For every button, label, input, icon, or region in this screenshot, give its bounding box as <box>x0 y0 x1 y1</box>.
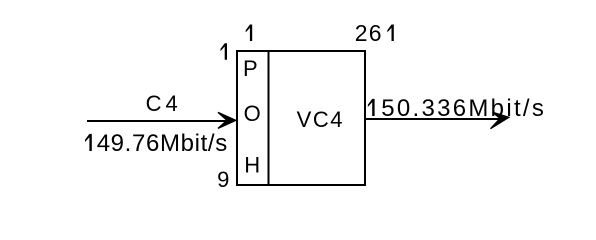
box VC4 container outline <box>237 51 365 185</box>
label column number 1 (above POH column) <box>246 25 252 41</box>
svg-text:49.76Mbit/s: 49.76Mbit/s <box>97 130 228 157</box>
svg-text:26: 26 <box>355 20 383 46</box>
svg-text:VC4: VC4 <box>297 107 344 132</box>
svg-text:H: H <box>244 152 260 177</box>
input arrowhead <box>218 112 236 128</box>
POH column divider line <box>268 50 270 186</box>
svg-text:O: O <box>244 101 261 126</box>
label 149.76Mbit/s (below input arrow) <box>85 134 92 151</box>
output arrowhead <box>491 112 509 129</box>
digit 1 of 261 <box>387 25 393 41</box>
label 150.336Mbit/s (above output arrow) <box>368 99 375 116</box>
svg-text:50.336Mbit/s: 50.336Mbit/s <box>381 95 546 122</box>
label row number 1 (left of box top) <box>221 43 227 59</box>
output arrow wire (from box right) <box>366 118 500 120</box>
svg-text:C4: C4 <box>146 91 182 116</box>
svg-text:P: P <box>243 56 258 81</box>
input arrow wire (C4 into box) <box>87 120 228 122</box>
svg-text:9: 9 <box>217 167 229 192</box>
